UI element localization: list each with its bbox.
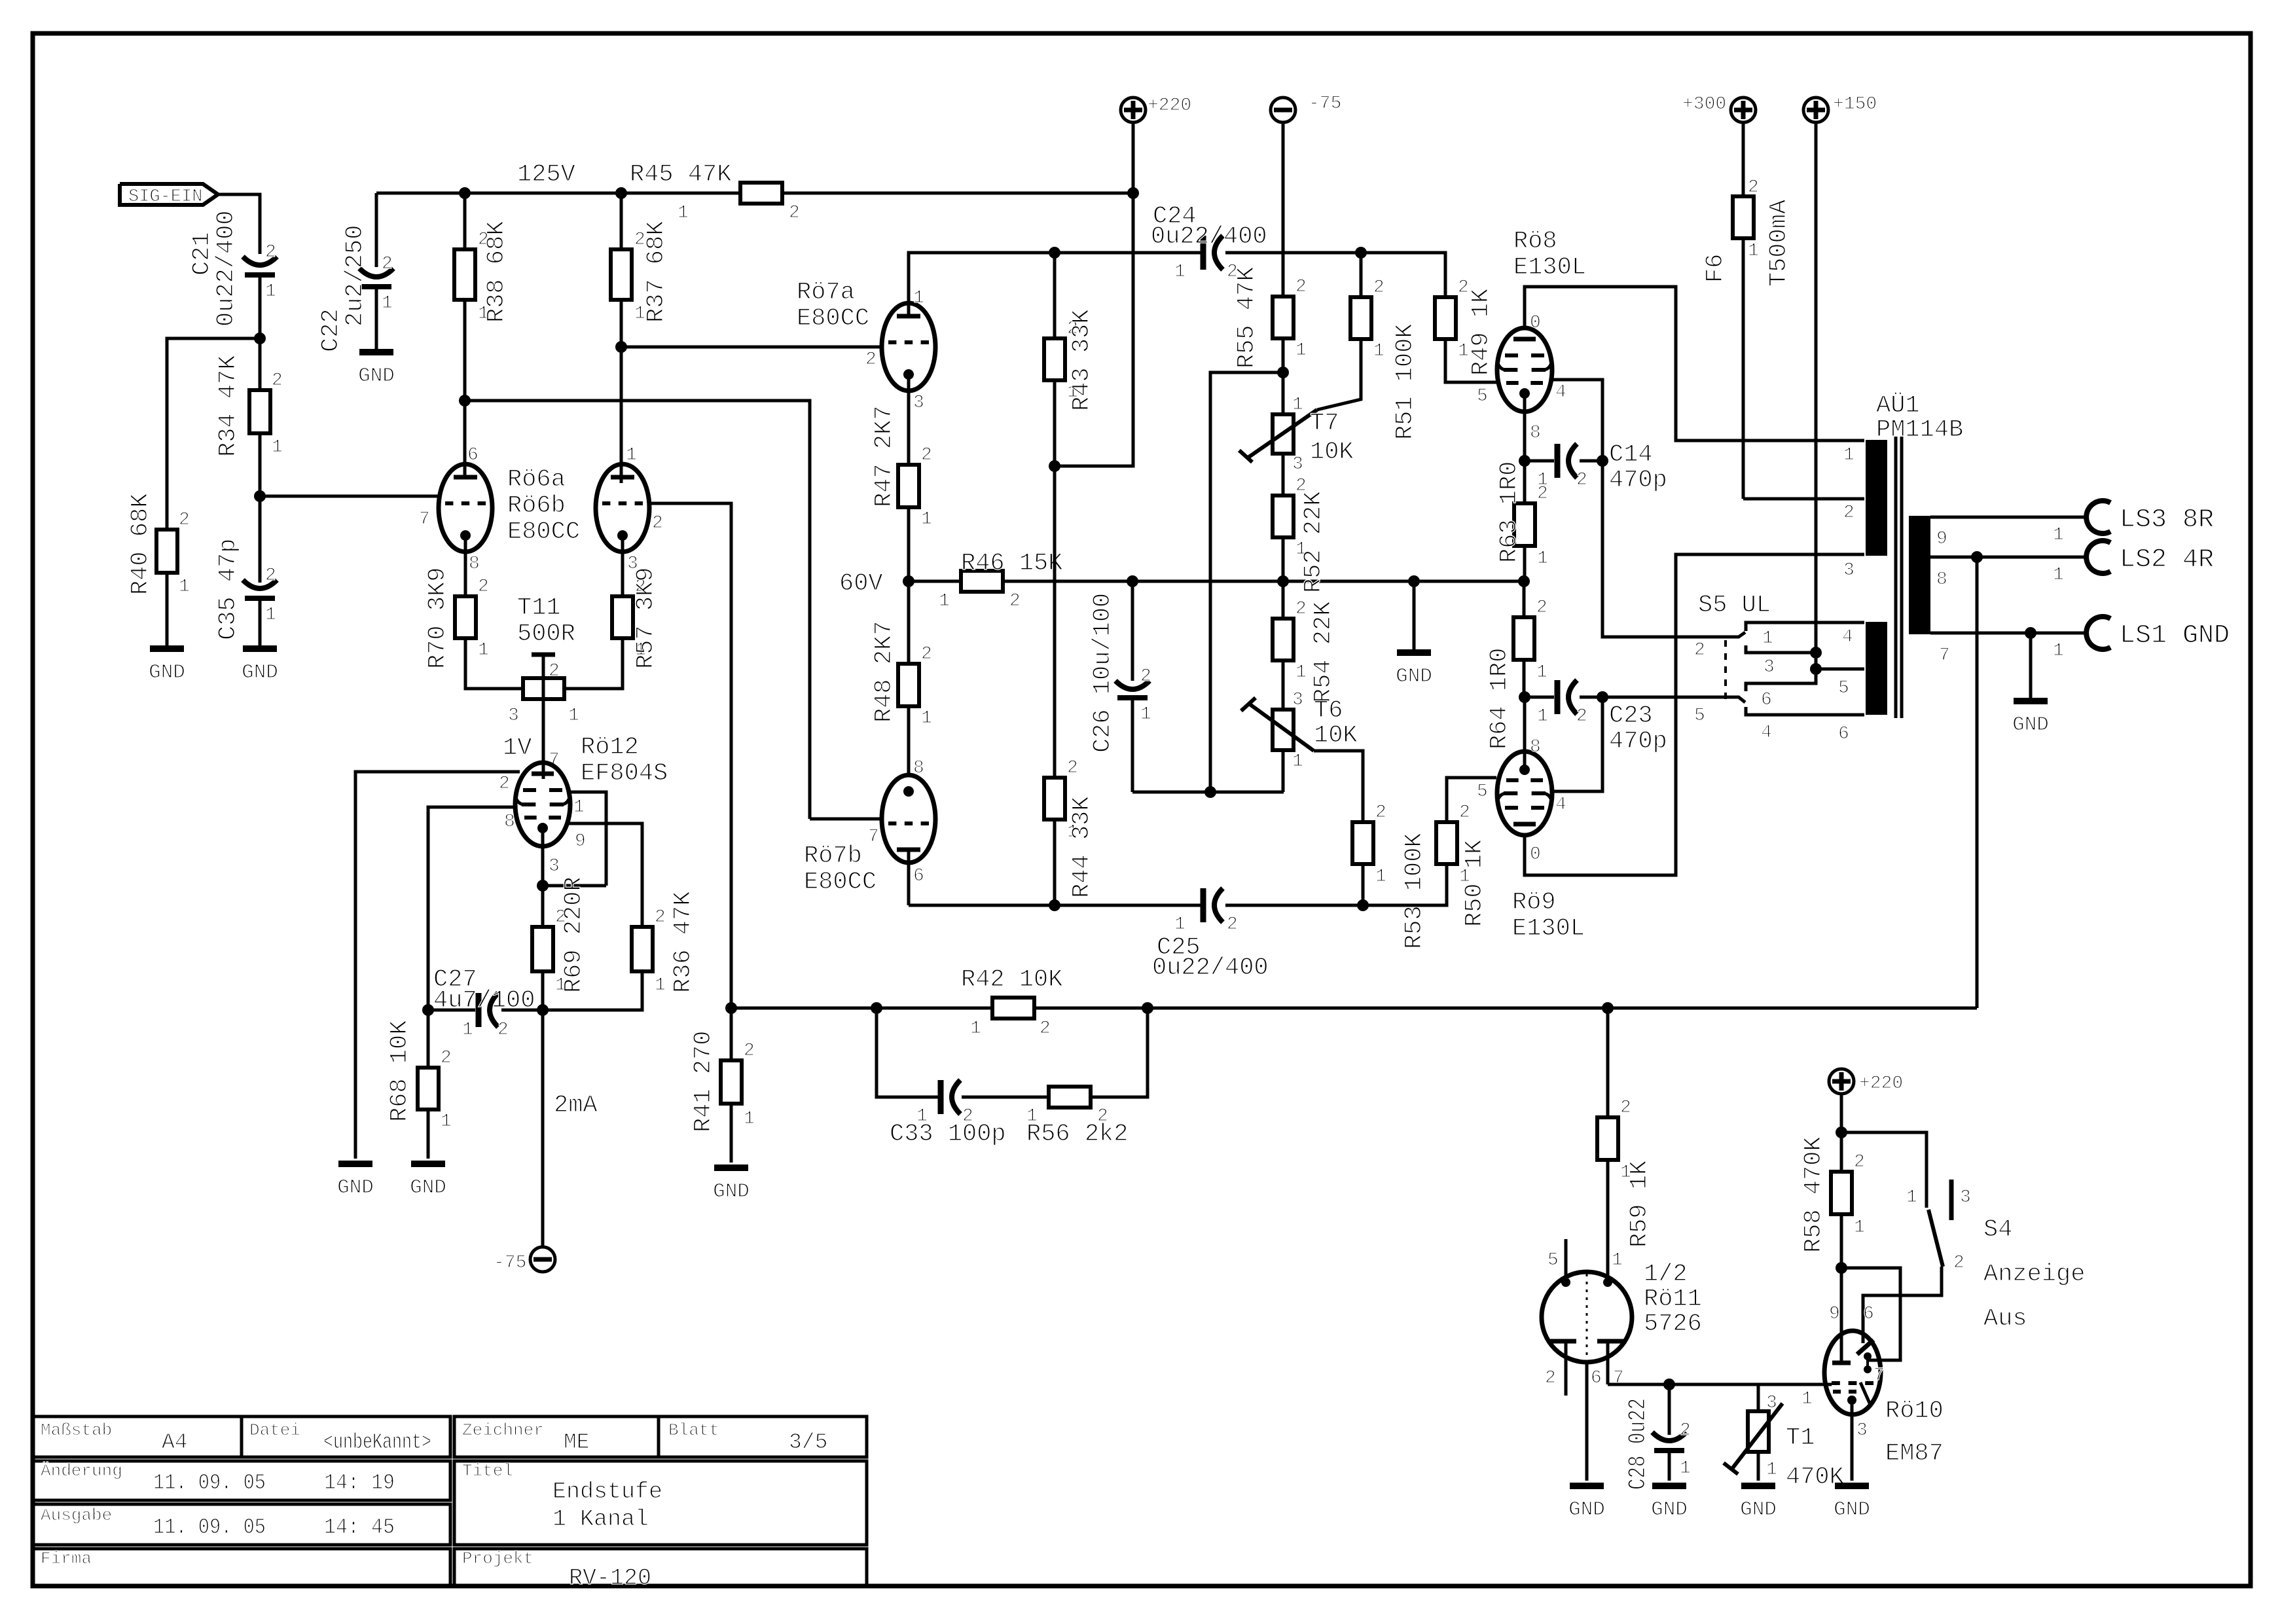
svg-text:<unbeKannt>: <unbeKannt> <box>323 1430 431 1454</box>
svg-text:GND: GND <box>149 661 185 684</box>
wire R37 to Ro6b anode <box>620 300 623 483</box>
svg-text:Maßstab: Maßstab <box>41 1420 112 1440</box>
transformer AU1 PM114B <box>1838 392 1963 744</box>
svg-text:4u7/100: 4u7/100 <box>433 987 535 1015</box>
node rail R38 <box>459 187 471 199</box>
svg-text:1/2: 1/2 <box>1644 1261 1688 1288</box>
tube Ro9 E130L <box>1497 737 1552 865</box>
svg-text:1: 1 <box>1292 751 1303 772</box>
node LS1 ground <box>2025 627 2036 639</box>
svg-text:GND: GND <box>713 1180 750 1203</box>
title block grid <box>33 1416 867 1586</box>
svg-text:2: 2 <box>1375 803 1386 823</box>
svg-text:R51 100K: R51 100K <box>1392 323 1419 440</box>
svg-text:1: 1 <box>462 1020 473 1040</box>
wire SIG-EIN to C21 <box>218 194 260 254</box>
capacitor C27 4u7/100 <box>428 966 543 1040</box>
svg-text:1: 1 <box>265 605 276 625</box>
svg-text:9: 9 <box>575 831 586 852</box>
svg-text:500R: 500R <box>517 621 575 648</box>
svg-text:3: 3 <box>1764 657 1775 677</box>
wire Ro7a anode to C24 line <box>909 253 1202 315</box>
svg-text:Rö7a: Rö7a <box>797 279 855 306</box>
svg-text:1: 1 <box>678 203 689 223</box>
svg-text:1: 1 <box>1748 241 1759 261</box>
svg-text:2: 2 <box>655 907 666 928</box>
node 60V rail R52/R54 <box>1277 575 1289 587</box>
svg-text:2: 2 <box>1854 1152 1865 1172</box>
wire R47 to 60V rail <box>907 507 911 581</box>
svg-text:R64 1R0: R64 1R0 <box>1486 648 1513 749</box>
svg-text:Rö6a: Rö6a <box>507 466 566 494</box>
ground 60V divider <box>1396 575 1432 688</box>
capacitor C23 470p <box>1525 680 1667 755</box>
svg-text:ME: ME <box>564 1430 590 1454</box>
node 60V rail C26 <box>1127 575 1138 587</box>
svg-text:1: 1 <box>441 1111 452 1132</box>
svg-text:3: 3 <box>1292 690 1303 710</box>
svg-text:1: 1 <box>573 797 585 818</box>
svg-text:GND: GND <box>1740 1498 1777 1521</box>
capacitor C33 100p <box>890 1080 1006 1148</box>
svg-text:6: 6 <box>1591 1368 1602 1388</box>
ground LS1 <box>2012 633 2049 736</box>
wire C23 to S5 pole 5 <box>1602 697 1745 702</box>
svg-text:GND: GND <box>1651 1498 1688 1521</box>
svg-text:1: 1 <box>1680 1458 1691 1479</box>
svg-text:1: 1 <box>1801 1389 1813 1409</box>
label Ro7b E80CC <box>804 842 877 896</box>
svg-text:T11: T11 <box>517 594 561 622</box>
capacitor C26 10u/100 <box>1089 581 1151 792</box>
power +300 <box>1682 94 1756 196</box>
svg-text:1: 1 <box>1174 262 1185 282</box>
ground C28 <box>1651 1486 1688 1521</box>
switch S4 Anzeige Aus <box>1863 1180 2085 1343</box>
wire C24 line to R49 <box>1361 253 1445 297</box>
svg-text:F6: F6 <box>1702 254 1729 283</box>
svg-text:125V: 125V <box>517 161 575 189</box>
svg-text:R53 100K: R53 100K <box>1401 833 1428 949</box>
svg-text:7: 7 <box>1873 1365 1885 1386</box>
svg-text:1: 1 <box>921 708 932 729</box>
resistor R54 22K <box>1273 581 1337 710</box>
svg-text:1: 1 <box>970 1019 981 1039</box>
svg-text:A4: A4 <box>162 1430 188 1454</box>
svg-text:2: 2 <box>1620 1098 1631 1118</box>
svg-text:2: 2 <box>549 661 560 681</box>
svg-text:2: 2 <box>1373 278 1384 298</box>
svg-text:R49 1K: R49 1K <box>1468 288 1495 376</box>
tube Ro12 EF804S <box>515 763 570 846</box>
wire AU1 pin8 to LS2 <box>1930 557 2088 585</box>
svg-text:C21: C21 <box>189 232 216 276</box>
svg-text:2mA: 2mA <box>554 1092 598 1119</box>
wire R57 to T11 pin1 <box>564 638 623 689</box>
ground C22 <box>358 352 395 388</box>
wire C25 line to R50 <box>1363 865 1447 905</box>
svg-text:T500mA: T500mA <box>1765 199 1793 287</box>
svg-text:GND: GND <box>1568 1498 1605 1521</box>
resistor R51 100K <box>1317 253 1419 440</box>
wire Ro8 cathode to C14 node <box>1523 393 1527 503</box>
svg-text:5: 5 <box>1547 1250 1559 1271</box>
label Ro7a E80CC <box>797 279 869 333</box>
wire Ro12 pin2 to ground column <box>355 772 520 1159</box>
svg-text:LS3 8R: LS3 8R <box>2120 505 2214 535</box>
node C26 line T7 column <box>1204 786 1216 798</box>
svg-text:2: 2 <box>1576 470 1587 490</box>
svg-text:Projekt: Projekt <box>462 1549 534 1568</box>
svg-text:+300: +300 <box>1682 94 1726 115</box>
switch S5 UL <box>1602 461 1864 743</box>
svg-text:3: 3 <box>1856 1420 1868 1441</box>
svg-text:R68 10K: R68 10K <box>386 1020 414 1122</box>
svg-text:R52 22K: R52 22K <box>1300 491 1328 593</box>
wire R58 node to Ro10 pin7 <box>1841 1268 1900 1360</box>
svg-text:2: 2 <box>789 203 800 223</box>
wire to R40 <box>167 338 260 530</box>
wire R49 to Ro8 grid <box>1445 339 1496 406</box>
node feedback R59 <box>1602 1002 1614 1014</box>
svg-text:E80CC: E80CC <box>797 305 869 333</box>
svg-text:11. 09. 05: 11. 09. 05 <box>153 1515 266 1540</box>
svg-text:S5 UL: S5 UL <box>1698 592 1771 619</box>
svg-text:2: 2 <box>1680 1420 1691 1441</box>
svg-text:14: 19: 14: 19 <box>324 1471 395 1495</box>
svg-text:T7: T7 <box>1310 410 1339 437</box>
svg-text:1: 1 <box>921 509 932 530</box>
resistor R56 2k2 <box>1026 1087 1128 1148</box>
wire Ro9 cathode to C23 node <box>1523 697 1527 770</box>
node C23 right <box>1597 691 1608 703</box>
svg-text:1: 1 <box>626 445 637 465</box>
svg-text:1: 1 <box>1537 549 1548 569</box>
label Ro6a Ro6b E80CC <box>507 466 580 546</box>
svg-text:8: 8 <box>504 812 515 832</box>
svg-text:2: 2 <box>1459 803 1470 823</box>
svg-text:GND: GND <box>410 1176 446 1199</box>
svg-text:1: 1 <box>1292 395 1303 415</box>
svg-text:LS2 4R: LS2 4R <box>2120 545 2214 575</box>
svg-text:2: 2 <box>265 566 276 586</box>
node LS2 feedback <box>1971 551 1983 563</box>
svg-text:7: 7 <box>1939 645 1950 666</box>
svg-text:Datei: Datei <box>249 1420 300 1440</box>
wire T6 wiper to R53 <box>1314 751 1363 822</box>
svg-text:Rö9: Rö9 <box>1512 889 1556 916</box>
svg-text:R42 10K: R42 10K <box>961 966 1063 994</box>
resistor R55 47K <box>1233 266 1307 372</box>
svg-text:2: 2 <box>272 370 283 391</box>
node rail R37 <box>615 187 627 199</box>
svg-text:8: 8 <box>1530 423 1541 443</box>
tube Ro11 5726 half <box>1542 1239 1632 1481</box>
svg-text:R50 1K: R50 1K <box>1461 839 1489 927</box>
node feedback R41 <box>725 1002 737 1014</box>
connector LS3 8R <box>2086 501 2214 535</box>
wire AU1 pin9 to LS3 <box>1930 517 2088 545</box>
svg-text:7: 7 <box>868 827 879 847</box>
tube Ro6b E80CC <box>596 445 663 574</box>
svg-text:3: 3 <box>1292 454 1303 475</box>
wire AU1 pin7 to LS1 <box>1930 633 2088 661</box>
svg-text:Blatt: Blatt <box>668 1420 719 1440</box>
title block text <box>41 1420 827 1591</box>
connector LS2 4R <box>2086 541 2214 575</box>
svg-text:5: 5 <box>1838 678 1849 698</box>
wire +220 feed to R43/R44 node <box>1055 193 1133 466</box>
svg-text:1: 1 <box>179 577 190 597</box>
wire T7 junction riser <box>1210 372 1284 792</box>
wire Ro7b anode to C25 line <box>907 850 911 905</box>
capacitor C25 0u22/400 <box>909 888 1362 982</box>
svg-text:R38 68K: R38 68K <box>483 221 511 323</box>
svg-text:2: 2 <box>1576 706 1587 727</box>
wire C21 to node <box>259 278 262 338</box>
resistor R37 68K <box>611 221 670 324</box>
node C25 line R44 <box>1049 899 1060 911</box>
resistor R45 47K <box>630 161 800 223</box>
resistor R46 15K <box>939 550 1063 611</box>
svg-text:C22: C22 <box>317 308 345 352</box>
wire Ro6b cathode to R57 <box>621 535 624 596</box>
svg-text:E130L: E130L <box>1513 254 1586 281</box>
node Ro12 cathode <box>537 880 549 892</box>
wire Ro8 anode to AU1 pin1 <box>1525 287 1864 441</box>
svg-text:Rö11: Rö11 <box>1644 1286 1702 1313</box>
svg-text:0: 0 <box>1530 313 1541 333</box>
resistor R36 47K <box>632 891 697 996</box>
svg-text:1: 1 <box>265 281 276 302</box>
svg-text:3: 3 <box>1766 1393 1777 1413</box>
resistor R42 10K <box>961 966 1063 1039</box>
svg-text:3: 3 <box>508 706 519 726</box>
svg-text:3: 3 <box>913 393 924 413</box>
wire R38 to Ro6a anode <box>463 300 467 475</box>
svg-text:3: 3 <box>1960 1187 1971 1208</box>
svg-text:Änderung: Änderung <box>41 1461 122 1481</box>
svg-text:4: 4 <box>1761 723 1772 743</box>
tube Ro7b E80CC <box>868 758 935 886</box>
svg-text:6: 6 <box>913 866 924 886</box>
svg-text:C26 10u/100: C26 10u/100 <box>1089 593 1117 753</box>
svg-text:-75: -75 <box>1309 94 1341 114</box>
svg-text:0u22/400: 0u22/400 <box>1151 223 1267 251</box>
resistor R68 10K <box>386 1010 452 1159</box>
svg-text:2: 2 <box>1140 666 1151 687</box>
svg-text:R36 47K: R36 47K <box>670 891 697 993</box>
svg-text:S4: S4 <box>1983 1216 2012 1244</box>
svg-text:10K: 10K <box>1314 722 1358 749</box>
net flag SIG-EIN <box>120 184 218 207</box>
wire Ro9 grid to R50 <box>1447 778 1496 822</box>
svg-text:GND: GND <box>1396 665 1432 688</box>
wire Ro12 cathode to -75 <box>543 1010 598 1247</box>
svg-text:1: 1 <box>1843 445 1855 465</box>
svg-text:2: 2 <box>382 254 393 274</box>
svg-text:2: 2 <box>1009 591 1021 611</box>
label Ro9 E130L <box>1512 889 1585 943</box>
ground C35 <box>242 649 278 684</box>
wire node to Ro7a grid <box>621 346 882 349</box>
node grid Ro6a <box>254 490 266 502</box>
svg-text:7: 7 <box>419 509 430 530</box>
wire cathode node <box>543 884 606 888</box>
wire C35 to ground <box>259 601 262 649</box>
svg-text:1: 1 <box>1536 662 1547 683</box>
resistor R48 2K7 <box>871 581 932 776</box>
svg-text:EM87: EM87 <box>1885 1440 1944 1468</box>
svg-text:8: 8 <box>469 554 480 574</box>
ground Ro11 pin6 <box>1568 1486 1605 1521</box>
node C24 line R51 <box>1355 247 1367 259</box>
svg-text:R58 470K: R58 470K <box>1800 1136 1828 1253</box>
svg-text:R70 3K9: R70 3K9 <box>424 568 452 669</box>
svg-text:1: 1 <box>913 288 924 308</box>
wire feedback line <box>731 1007 1977 1010</box>
svg-text:R43 33K: R43 33K <box>1068 309 1096 411</box>
ground T1 <box>1740 1486 1777 1521</box>
svg-text:1V: 1V <box>503 734 532 762</box>
label Ro12 EF804S <box>581 734 668 787</box>
svg-text:C28 0u22: C28 0u22 <box>1625 1398 1652 1490</box>
svg-text:2: 2 <box>921 644 932 664</box>
wire Ro8 g2 to C14 node <box>1552 380 1602 461</box>
svg-text:2: 2 <box>1953 1253 1964 1273</box>
svg-text:R46 15K: R46 15K <box>961 550 1063 577</box>
svg-text:C14: C14 <box>1609 441 1653 469</box>
resistor R52 22K <box>1273 476 1328 593</box>
node R58 Ro10 <box>1836 1262 1847 1274</box>
wire Ro6a cathode to R70 <box>464 535 467 596</box>
svg-text:4: 4 <box>1555 382 1566 403</box>
svg-text:RV-120: RV-120 <box>569 1565 651 1591</box>
svg-text:1: 1 <box>1140 704 1151 725</box>
svg-text:Anzeige: Anzeige <box>1983 1261 2085 1288</box>
svg-text:T1: T1 <box>1786 1424 1815 1452</box>
svg-text:R34 47K: R34 47K <box>215 355 242 457</box>
svg-text:1: 1 <box>1854 1218 1865 1238</box>
node C25 line R53 <box>1357 899 1369 911</box>
svg-text:C35 47p: C35 47p <box>215 539 242 640</box>
label Ro11 5726 <box>1644 1261 1702 1338</box>
svg-text:Firma: Firma <box>41 1549 92 1568</box>
svg-text:1: 1 <box>272 437 283 458</box>
svg-text:2: 2 <box>1295 599 1307 619</box>
wire node to Ro6a grid <box>260 495 439 498</box>
wire R40 to ground <box>166 573 169 649</box>
svg-text:1: 1 <box>2053 525 2064 545</box>
svg-text:470p: 470p <box>1609 467 1667 494</box>
wire Ro12 pin1 to cathode node <box>569 792 606 886</box>
svg-text:2: 2 <box>1227 914 1238 935</box>
svg-text:GND: GND <box>337 1176 374 1199</box>
resistor R41 270 <box>690 1008 755 1163</box>
capacitor C21 0u22/400 <box>189 210 277 327</box>
node C14 left <box>1519 455 1530 467</box>
node +220 S4 <box>1836 1127 1847 1138</box>
wire 125V rail <box>376 161 1133 193</box>
wire R34 to C35 <box>259 433 262 583</box>
svg-text:R56 2k2: R56 2k2 <box>1026 1121 1128 1148</box>
svg-text:2: 2 <box>865 350 877 370</box>
svg-text:11. 09. 05: 11. 09. 05 <box>153 1471 266 1495</box>
wire C23 node to Ro9 g2 <box>1552 697 1602 815</box>
svg-text:2u2/250: 2u2/250 <box>342 225 369 327</box>
wire Ro12 pin8 to C27 node <box>428 807 516 1010</box>
svg-text:2: 2 <box>1694 640 1705 660</box>
svg-text:14: 45: 14: 45 <box>324 1515 395 1540</box>
trimmer T1 470K <box>1724 1384 1845 1491</box>
wire R70 to T11 pin3 <box>465 638 523 689</box>
svg-text:R37 68K: R37 68K <box>643 221 670 323</box>
node 125V rail +220 <box>1127 187 1139 199</box>
capacitor C24 0u22/400 <box>1151 203 1361 282</box>
node R37 Ro6b anode <box>615 341 627 353</box>
wire C33/R56 branch <box>877 1008 1148 1097</box>
svg-text:R40 68K: R40 68K <box>127 493 154 595</box>
svg-text:R55 47K: R55 47K <box>1233 266 1261 369</box>
fuse F6 T500mA <box>1702 177 1793 499</box>
wire Ro12 cathode <box>543 828 560 927</box>
resistor R59 1K <box>1597 1008 1654 1280</box>
svg-text:GND: GND <box>1834 1498 1870 1521</box>
wire Ro7a cathode to R47 <box>907 374 911 465</box>
svg-text:1: 1 <box>382 293 393 314</box>
svg-text:LS1 GND: LS1 GND <box>2120 621 2230 651</box>
svg-text:0u22/400: 0u22/400 <box>213 210 240 327</box>
wire C26 bottom line <box>1132 791 1284 794</box>
power -75 <box>494 1247 555 1273</box>
svg-text:10K: 10K <box>1310 439 1354 466</box>
wire Ro11 pin7 line <box>1608 1383 1832 1386</box>
resistor R64 1R0 <box>1486 581 1547 749</box>
wire F6 to AU1 pin2 <box>1743 497 1864 501</box>
resistor R69 220R <box>532 876 588 996</box>
svg-text:Zeichner: Zeichner <box>462 1420 544 1440</box>
svg-text:4: 4 <box>1842 627 1853 647</box>
power +220 indicator <box>1829 1069 1903 1172</box>
resistor R49 1K <box>1435 278 1495 376</box>
tube Ro10 EM87 <box>1801 1304 1885 1481</box>
svg-text:1: 1 <box>1373 341 1384 361</box>
wire feedback LS2 tap <box>1976 557 1979 1008</box>
capacitor C22 2u2/250 <box>317 193 393 352</box>
node feedback branch rejoin <box>1142 1002 1153 1014</box>
svg-text:5: 5 <box>1694 706 1705 726</box>
svg-text:3/5: 3/5 <box>789 1430 827 1454</box>
svg-text:E130L: E130L <box>1512 915 1585 943</box>
wire Ro7b grid <box>810 818 882 821</box>
svg-text:R47 2K7: R47 2K7 <box>871 406 898 507</box>
node C24 line R43 <box>1049 247 1060 259</box>
svg-text:C23: C23 <box>1609 702 1653 730</box>
svg-text:2: 2 <box>478 577 489 597</box>
svg-text:EF804S: EF804S <box>581 760 668 787</box>
trimmer T11 500R <box>508 594 579 779</box>
svg-text:1: 1 <box>1375 867 1386 887</box>
wire Ro9 anode to AU1 pin3 <box>1525 554 1864 875</box>
svg-text:Rö6b: Rö6b <box>507 492 566 520</box>
svg-text:6: 6 <box>1838 724 1849 744</box>
svg-text:R48 2K7: R48 2K7 <box>871 621 898 723</box>
label Ro8 E130L <box>1513 228 1586 281</box>
svg-text:1: 1 <box>1766 1460 1777 1480</box>
svg-text:1: 1 <box>939 591 950 611</box>
svg-text:C33 100p: C33 100p <box>890 1121 1006 1148</box>
svg-text:6: 6 <box>1761 690 1772 710</box>
